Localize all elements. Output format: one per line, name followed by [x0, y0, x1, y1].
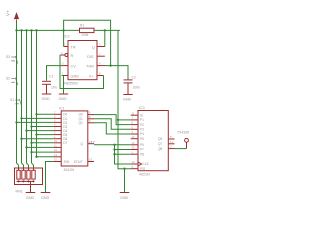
- svg-text:GND: GND: [71, 74, 80, 78]
- svg-text:IC1: IC1: [59, 106, 65, 110]
- svg-text:DIS: DIS: [87, 55, 94, 59]
- svg-text:GND: GND: [120, 196, 129, 200]
- wire select A: [27, 146, 54, 148]
- wire top supply/TR rail y=30.4: [17, 29, 80, 31]
- pin numbers IC1: [54, 110, 92, 161]
- wire select C: [37, 156, 54, 158]
- svg-text:GND: GND: [59, 97, 68, 101]
- svg-text:P7: P7: [140, 148, 144, 152]
- wire GND pin drop: [62, 75, 64, 77]
- svg-text:P/S: P/S: [140, 167, 145, 171]
- wire Q8 to TX433K pin: [175, 148, 187, 150]
- svg-text:GND: GND: [123, 98, 132, 102]
- svg-text:R: R: [71, 54, 74, 58]
- svg-text:10n: 10n: [51, 86, 57, 90]
- pin stubs IC2: [60, 47, 106, 76]
- svg-text:THR: THR: [86, 64, 94, 68]
- capacitor C2: [124, 75, 141, 94]
- wire D1 tap: [22, 117, 54, 119]
- node P/S to ground junction: [123, 168, 125, 170]
- pin stubs IC1: [53, 114, 94, 161]
- wire R pin to V+ return: [60, 55, 104, 89]
- resistor network RN1: [15, 168, 43, 193]
- switch S3: [11, 56, 18, 64]
- switch S1: [15, 99, 22, 107]
- node THR junction dot: [109, 64, 111, 66]
- ground EIN: [41, 193, 51, 200]
- svg-text:GND: GND: [41, 196, 50, 200]
- node taps junction dots: [15, 113, 37, 158]
- svg-text:GND: GND: [42, 97, 51, 101]
- wire D7 tap: [32, 142, 54, 144]
- wire P/S junction to ground: [124, 169, 126, 192]
- svg-text:S3: S3: [6, 55, 10, 59]
- svg-text:Q6: Q6: [158, 137, 162, 141]
- svg-text:P5: P5: [140, 137, 144, 141]
- svg-text:IC2: IC2: [64, 34, 70, 38]
- ground C2: [123, 95, 133, 102]
- wire D3 tap: [32, 126, 54, 128]
- ground P/S: [120, 193, 130, 200]
- svg-text:NE555N: NE555N: [64, 82, 78, 86]
- svg-text:P8: P8: [140, 152, 144, 156]
- svg-text:V+: V+: [89, 74, 95, 78]
- svg-text:Q2: Q2: [79, 121, 83, 125]
- wire D2 tap: [17, 121, 54, 123]
- wire D6 tap: [22, 138, 54, 140]
- svg-text:Q7: Q7: [158, 142, 162, 146]
- pin labels IC1 left D0-D7: [63, 113, 83, 164]
- resistor R1: [80, 23, 95, 37]
- svg-text:TX433K: TX433K: [177, 131, 190, 135]
- wire net TX from IC1 Q to IC3 P6: [94, 144, 131, 146]
- wire D5 tap: [37, 134, 54, 136]
- svg-text:P6: P6: [140, 143, 144, 147]
- data selector IC1 4512: [59, 106, 88, 172]
- svg-text:TX: TX: [91, 141, 96, 145]
- node TX branch dot: [113, 144, 115, 146]
- svg-text:RN1: RN1: [16, 189, 23, 193]
- wire rail right of R1: [94, 29, 120, 31]
- svg-text:EOUT: EOUT: [74, 160, 83, 164]
- node P1 junction dot on center rail: [117, 119, 119, 121]
- wire D0 tap: [37, 113, 54, 115]
- node junction dots on rail: [15, 29, 106, 31]
- svg-text:P3: P3: [140, 128, 144, 132]
- wire P1 branch: [118, 119, 131, 121]
- svg-text:P2: P2: [140, 123, 144, 127]
- svg-text:Q: Q: [92, 45, 95, 49]
- wire jogs into RN1 pins: [17, 163, 19, 168]
- svg-text:CLK: CLK: [143, 162, 150, 166]
- timer 555 IC2: [64, 34, 97, 85]
- svg-text:CV: CV: [71, 64, 77, 68]
- svg-text:C2: C2: [132, 75, 136, 79]
- wire EIN to ground: [46, 162, 54, 193]
- svg-text:C1: C1: [49, 75, 53, 79]
- wire staircase IC1 Q0 to IC3 P2: [94, 115, 131, 125]
- switch S2: [11, 78, 18, 86]
- svg-text:GND: GND: [26, 196, 35, 200]
- wire Q riser to rail: [104, 30, 106, 46]
- wire TX drop to P7 P8 CLK: [115, 145, 131, 164]
- svg-text:IC3: IC3: [139, 106, 145, 110]
- ground RN1: [26, 193, 36, 200]
- ground IC2: [59, 94, 69, 101]
- clock wedge IC3: [138, 162, 142, 166]
- svg-text:V+: V+: [6, 10, 11, 16]
- svg-text:4021N: 4021N: [139, 173, 150, 177]
- wire switch column verticals: [16, 30, 18, 163]
- wire center vertical Q rail x=118 down to P/S: [118, 30, 131, 168]
- pin stubs IC3: [131, 115, 175, 169]
- svg-text:R1: R1: [80, 23, 84, 27]
- svg-text:P4: P4: [140, 132, 144, 136]
- wire staircase IC1 Q1 to IC3 P3: [94, 119, 131, 130]
- capacitor C1: [42, 75, 57, 94]
- wire THR to C2: [106, 66, 128, 80]
- svg-text:Q8: Q8: [158, 147, 162, 151]
- svg-text:4512N: 4512N: [64, 168, 75, 172]
- pin numbers IC3: [132, 111, 174, 169]
- svg-text:EIN: EIN: [64, 160, 70, 164]
- wire select B: [32, 151, 54, 153]
- supply symbol V+: [6, 10, 19, 30]
- wire CV to C1: [47, 66, 62, 81]
- ground C1: [42, 94, 52, 101]
- svg-text:S1: S1: [10, 98, 14, 102]
- svg-text:SI: SI: [140, 113, 143, 117]
- shift register IC3 4021: [138, 106, 168, 177]
- pin labels IC3: [140, 113, 162, 170]
- svg-text:TR: TR: [71, 45, 76, 49]
- wire D4 tap: [27, 130, 54, 132]
- wire staircase IC1 Q2 to IC3 P4: [94, 123, 131, 134]
- connector TX433K: [177, 131, 190, 149]
- svg-text:D7: D7: [63, 141, 67, 145]
- pin numbers IC2: [61, 43, 101, 76]
- svg-text:S2: S2: [6, 77, 10, 81]
- svg-text:P1: P1: [140, 118, 144, 122]
- svg-text:100k: 100k: [81, 33, 89, 37]
- svg-text:100n: 100n: [133, 86, 141, 90]
- wire TR riser x=63.6 (top line to TR pin): [64, 20, 111, 65]
